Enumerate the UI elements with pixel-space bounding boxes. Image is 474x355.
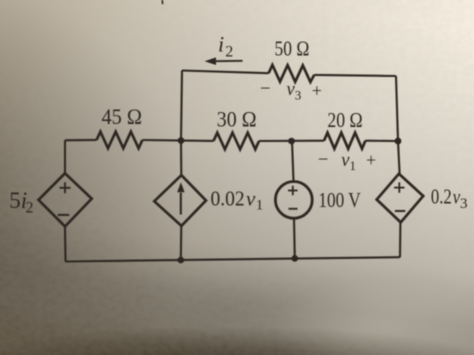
svg-text:20 Ω: 20 Ω bbox=[327, 108, 362, 132]
page-top tick mark bbox=[161, 0, 163, 4]
junction node dot bottom 100V bbox=[292, 255, 299, 262]
svg-text:2: 2 bbox=[225, 44, 233, 61]
svg-text:−: − bbox=[318, 149, 329, 170]
wire above 0.02v1 source bbox=[180, 141, 182, 176]
wire above 100V source bbox=[292, 141, 294, 181]
junction node dot middle-center bbox=[288, 138, 295, 145]
arrow shaft inside 0.02v1 diamond bbox=[180, 193, 182, 215]
bottom wire bbox=[66, 257, 401, 261]
current arrow i2 shaft bbox=[215, 60, 243, 62]
plus sign inside 5i2 diamond bbox=[60, 182, 71, 193]
wire top-left corner to 50-ohm resistor bbox=[182, 71, 269, 74]
dependent source 0.2v3 diamond bbox=[377, 174, 424, 223]
resistor R 45 ohm zigzag bbox=[97, 132, 143, 149]
plus sign inside 0.2v3 diamond bbox=[394, 182, 404, 192]
current arrow i2 head bbox=[205, 57, 217, 65]
junction node dot bottom 0.02v1 bbox=[178, 257, 185, 264]
resistor R 20 ohm zigzag bbox=[324, 133, 365, 149]
wire between 45 and 30 ohm bbox=[142, 139, 213, 142]
junction node dot middle-left bbox=[178, 137, 185, 144]
svg-text:3: 3 bbox=[295, 87, 302, 102]
svg-text:100 V: 100 V bbox=[318, 188, 360, 212]
wire right vertical from top-right corner down bbox=[396, 76, 400, 175]
svg-text:v: v bbox=[246, 186, 256, 210]
svg-text:−: − bbox=[260, 79, 271, 100]
wire left vertical below 5i2 source bbox=[64, 227, 67, 262]
dependent source 5i2 diamond bbox=[39, 173, 92, 226]
minus sign inside 5i2 diamond bbox=[58, 214, 69, 216]
voltage source 100V circle bbox=[275, 182, 312, 219]
svg-text:1: 1 bbox=[350, 158, 357, 173]
svg-text:i: i bbox=[218, 32, 224, 57]
svg-text:1: 1 bbox=[256, 198, 263, 214]
svg-text:2: 2 bbox=[26, 200, 34, 217]
plus sign inside 100V circle bbox=[288, 186, 298, 196]
resistor R 30 ohm zigzag bbox=[214, 133, 260, 150]
minus sign inside 100V circle bbox=[289, 208, 298, 210]
wire 20 ohm to right node bbox=[365, 140, 398, 142]
minus sign inside 0.2v3 diamond bbox=[395, 210, 405, 212]
wire left vertical above 5i2 source bbox=[64, 140, 66, 173]
wire below 0.02v1 source bbox=[180, 226, 183, 260]
svg-text:+: + bbox=[312, 80, 322, 100]
svg-text:45 Ω: 45 Ω bbox=[102, 104, 143, 129]
wire 50-ohm to top-right corner bbox=[314, 75, 396, 76]
svg-text:0.02: 0.02 bbox=[211, 186, 245, 210]
svg-text:3: 3 bbox=[460, 196, 468, 212]
wire middle-left start bbox=[65, 139, 97, 142]
svg-text:0.2: 0.2 bbox=[431, 184, 452, 208]
svg-text:30 Ω: 30 Ω bbox=[217, 107, 257, 132]
arrow head inside 0.02v1 diamond bbox=[177, 182, 184, 192]
resistor R 50 ohm zigzag bbox=[269, 65, 315, 82]
svg-text:+: + bbox=[366, 150, 376, 170]
svg-text:5i: 5i bbox=[9, 188, 27, 213]
svg-text:50 Ω: 50 Ω bbox=[275, 36, 310, 60]
wire vertical from top wire down to middle node at x=182 bbox=[181, 71, 182, 141]
wire below 100V source bbox=[293, 219, 296, 259]
dependent current source 0.02v1 diamond bbox=[154, 175, 206, 226]
junction node dot middle-right bbox=[395, 138, 402, 145]
wire between 30 and 20 ohm bbox=[259, 140, 324, 142]
wire below 0.2v3 source bbox=[399, 222, 401, 257]
